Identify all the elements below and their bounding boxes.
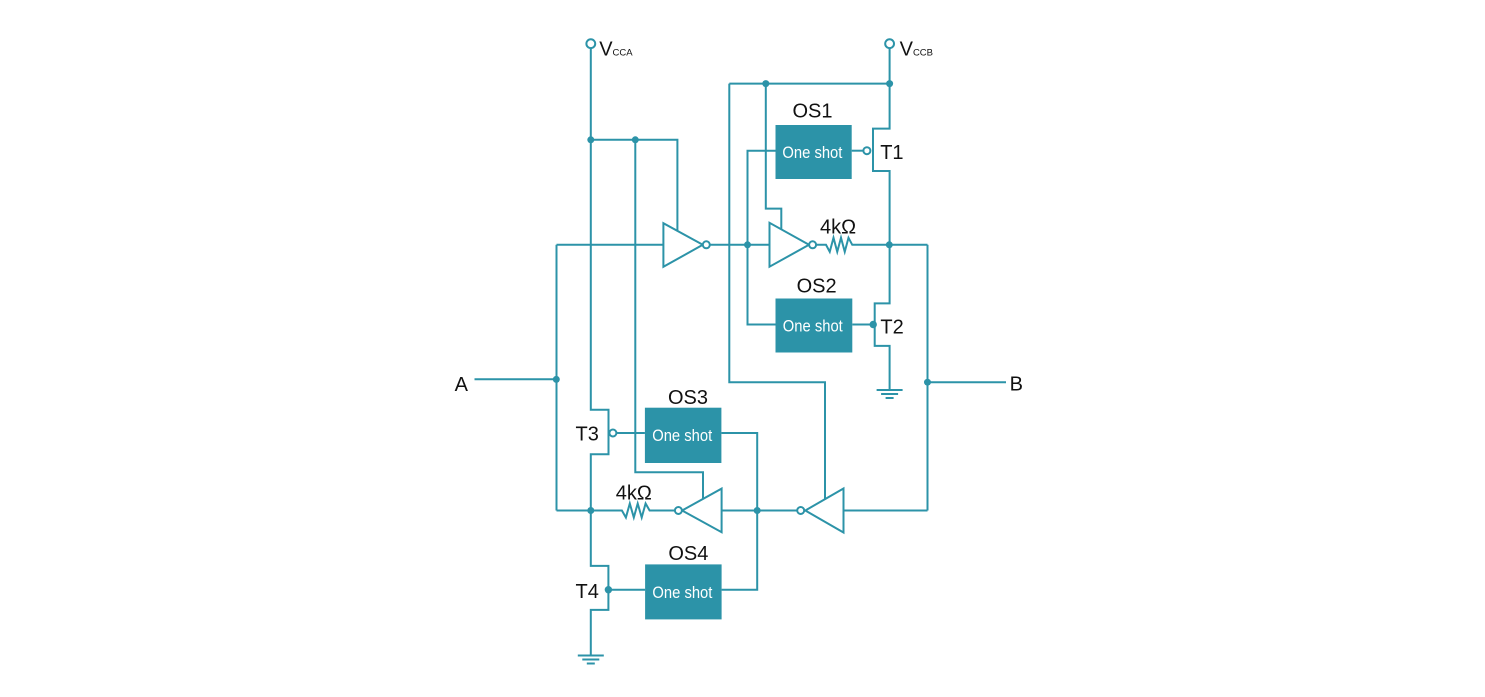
svg-text:One shot: One shot [783,316,843,335]
svg-text:One shot: One shot [652,426,712,445]
svg-text:A: A [455,374,469,396]
svg-text:T2: T2 [880,317,903,339]
svg-text:T1: T1 [880,142,903,164]
svg-text:4kΩ: 4kΩ [820,217,856,239]
svg-text:B: B [1010,374,1023,396]
svg-text:T3: T3 [576,424,599,446]
svg-text:OS1: OS1 [792,101,832,123]
svg-text:One shot: One shot [782,143,842,162]
svg-text:OS2: OS2 [797,276,837,298]
svg-text:OS4: OS4 [668,543,708,565]
svg-text:One shot: One shot [652,583,712,602]
svg-text:4kΩ: 4kΩ [616,483,652,505]
svg-text:T4: T4 [576,581,599,603]
svg-text:OS3: OS3 [668,387,708,409]
svg-text:VCCA: VCCA [599,38,633,60]
svg-text:VCCB: VCCB [900,38,933,60]
